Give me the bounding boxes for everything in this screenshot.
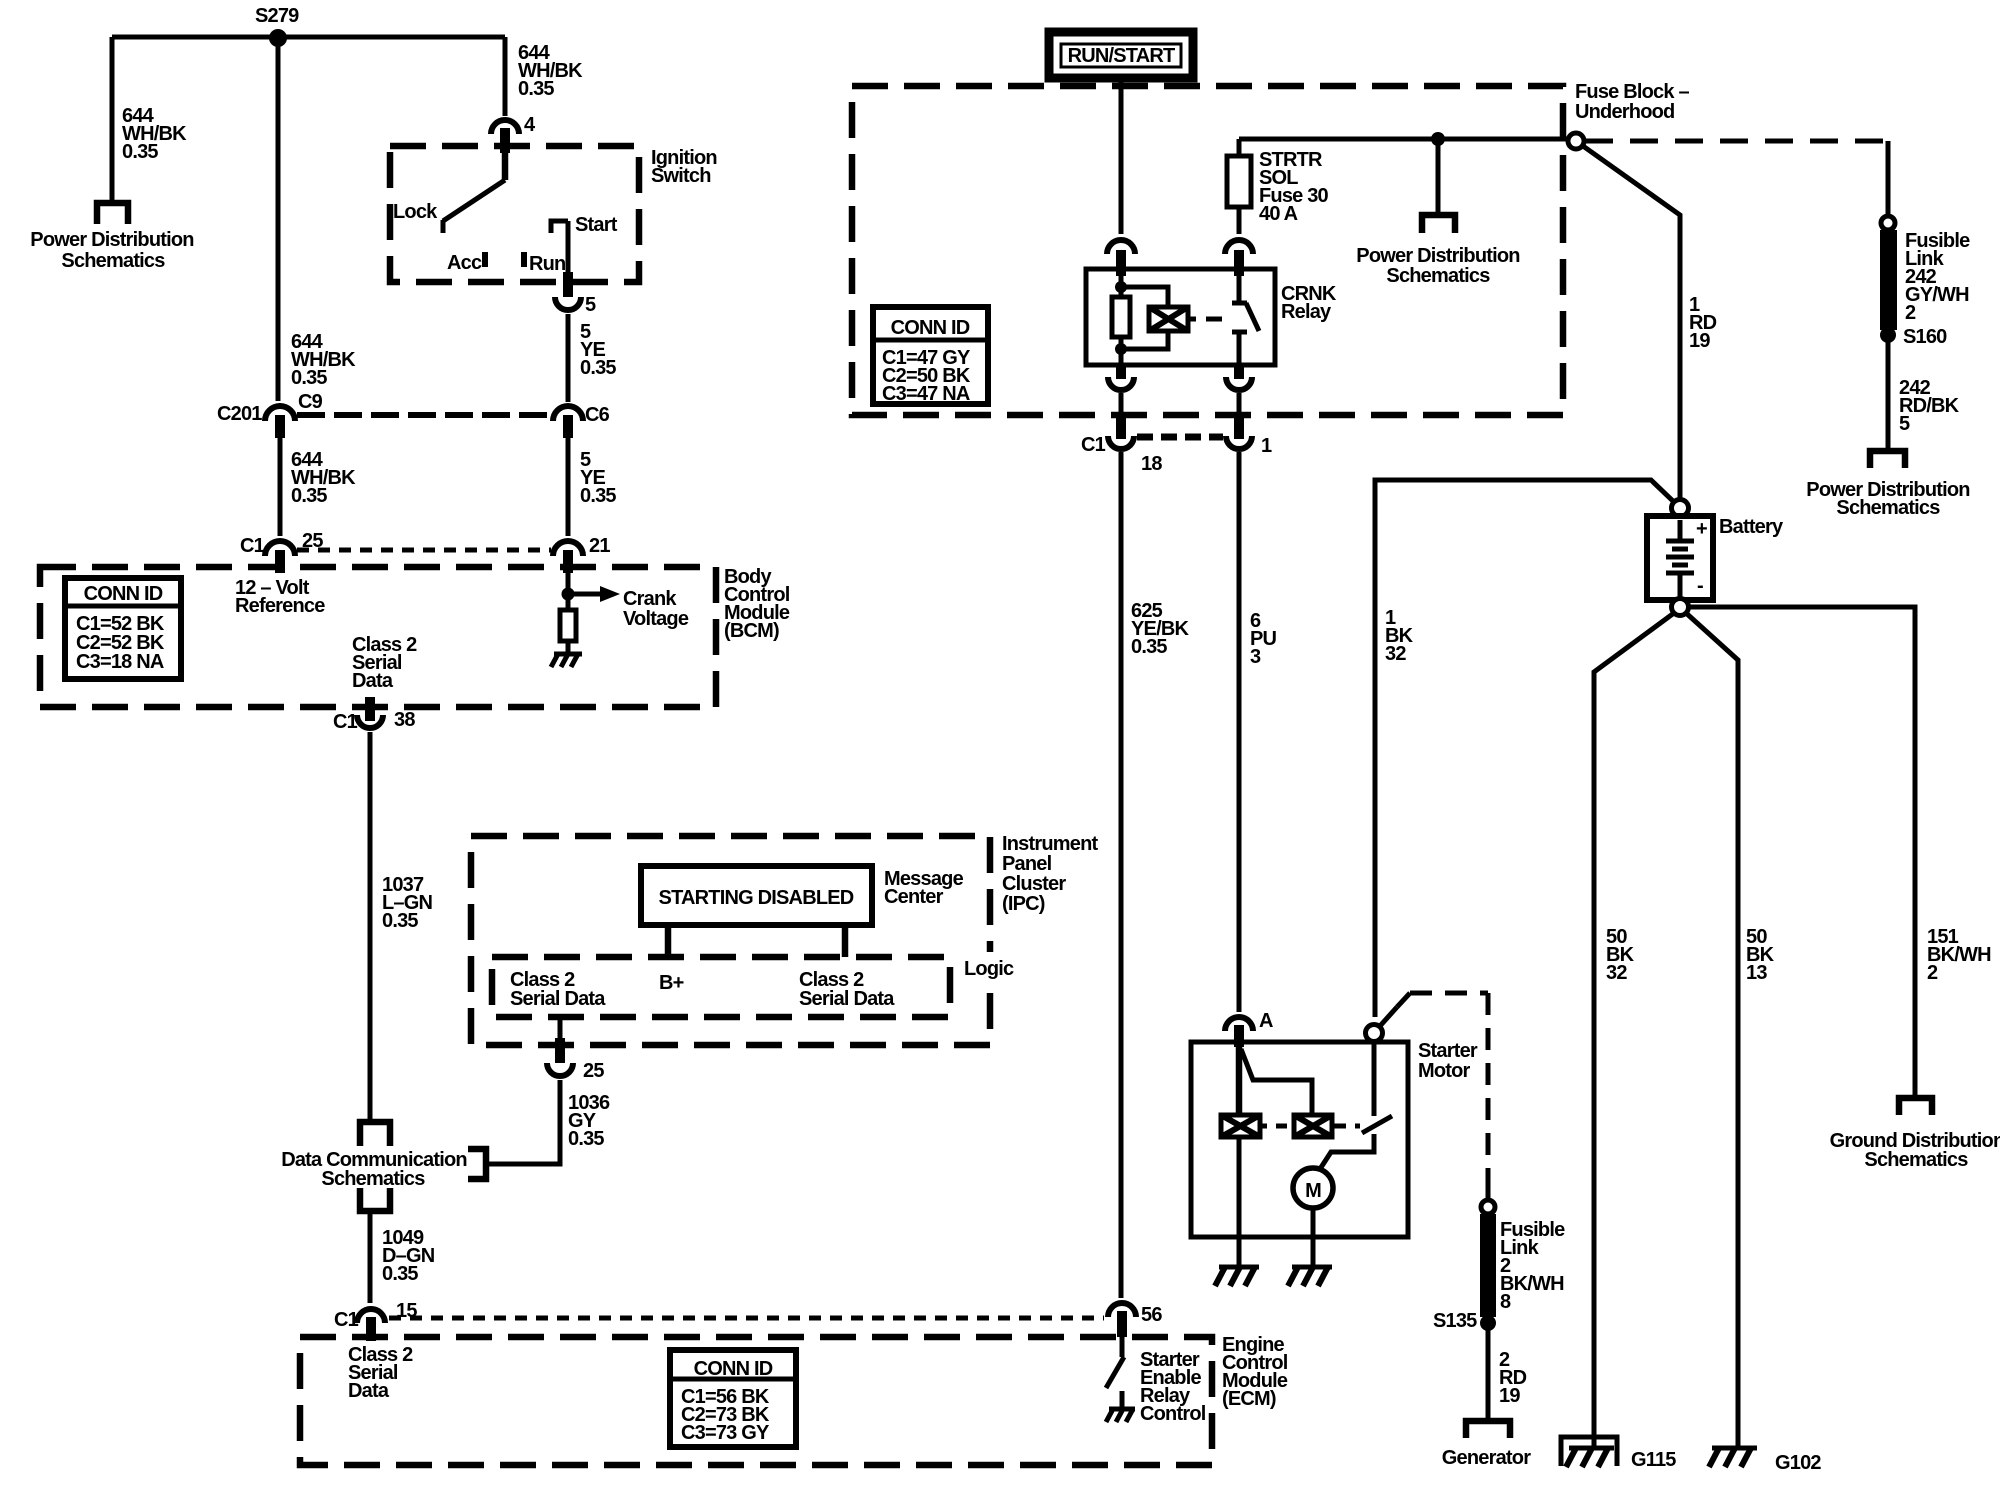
svg-text:B+: B+ bbox=[659, 972, 684, 994]
dashed link coil to contact bbox=[1332, 1124, 1360, 1129]
wire dashed in-line connector C201 bbox=[297, 412, 551, 418]
off-page connector Generator bbox=[1466, 1421, 1510, 1438]
svg-text:RUN/START: RUN/START bbox=[1068, 45, 1175, 67]
table CONN ID (fuse block) bbox=[873, 307, 988, 405]
svg-text:C1: C1 bbox=[1081, 434, 1106, 456]
wire 2 RD 19 down to generator bbox=[1486, 1330, 1491, 1419]
svg-text:5: 5 bbox=[585, 294, 596, 316]
svg-text:(IPC): (IPC) bbox=[1002, 893, 1045, 915]
wire 625 YE/BK from pin 18 down to ECM pin 56 bbox=[1119, 452, 1124, 1298]
svg-text:G115: G115 bbox=[1631, 1449, 1676, 1471]
terminal circle at fuse block corner bbox=[1568, 133, 1584, 149]
svg-text:Voltage: Voltage bbox=[623, 608, 689, 630]
svg-text:0.35: 0.35 bbox=[291, 485, 327, 507]
switch arm (ignition, in Lock position) bbox=[443, 150, 505, 233]
svg-text:32: 32 bbox=[1606, 962, 1627, 984]
svg-text:0.35: 0.35 bbox=[580, 485, 616, 507]
svg-text:Data: Data bbox=[352, 670, 394, 692]
solenoid pull-in coil bbox=[1294, 1115, 1332, 1137]
wire Start position down through box bbox=[566, 221, 571, 272]
dashed link between coils bbox=[1260, 1124, 1287, 1129]
svg-text:18: 18 bbox=[1141, 453, 1162, 475]
off-page connector Data Communication Schematics (bottom bracket) bbox=[360, 1188, 390, 1211]
svg-text:Serial Data: Serial Data bbox=[799, 988, 895, 1010]
wire battery negative to ground distribution bbox=[1688, 607, 1915, 1096]
svg-text:Acc: Acc bbox=[447, 252, 482, 274]
off-page connector Power Distribution Schematics (right) bbox=[1870, 451, 1905, 468]
svg-text:CONN ID: CONN ID bbox=[694, 1358, 773, 1380]
svg-text:Data: Data bbox=[348, 1380, 390, 1402]
off-page connector Power Distribution Schematics (fuse block) bbox=[1422, 215, 1455, 233]
node crank voltage junction dot bbox=[562, 588, 575, 601]
module IPC dashed box bbox=[471, 836, 990, 1045]
wire 5 YE down to C6 bbox=[566, 314, 571, 402]
svg-text:Schematics: Schematics bbox=[61, 250, 165, 272]
svg-text:0.35: 0.35 bbox=[580, 357, 616, 379]
svg-text:C201: C201 bbox=[217, 403, 262, 425]
connector C201 pin C9 bbox=[217, 391, 323, 438]
svg-text:0.35: 0.35 bbox=[122, 141, 158, 163]
svg-text:56: 56 bbox=[1141, 1304, 1162, 1326]
svg-text:2: 2 bbox=[1927, 962, 1938, 984]
svg-text:Center: Center bbox=[884, 886, 944, 908]
ground G102 bbox=[1709, 1448, 1757, 1467]
svg-text:Control: Control bbox=[1140, 1403, 1206, 1425]
svg-text:(ECM): (ECM) bbox=[1222, 1388, 1276, 1410]
wire 1049 D-GN down to C1 pin 15 bbox=[368, 1211, 373, 1303]
svg-text:C6: C6 bbox=[585, 404, 610, 426]
fuse STRTR SOL Fuse 30 40 A bbox=[1227, 139, 1251, 234]
svg-text:S160: S160 bbox=[1903, 326, 1947, 348]
svg-text:M: M bbox=[1305, 1180, 1321, 1202]
connector pin 1 (fuse block bottom) bbox=[1226, 417, 1272, 457]
wire 1036 GY from pin 25 to data comm schematics bbox=[487, 1080, 560, 1164]
logic dashed box (IPC) bbox=[492, 957, 950, 1017]
svg-text:CONN ID: CONN ID bbox=[84, 583, 163, 605]
starter switch blade bbox=[1320, 1041, 1392, 1169]
connector pin A (starter motor) bbox=[1225, 1010, 1273, 1047]
connector C1 pin 15 (ECM) bbox=[334, 1300, 417, 1341]
wire dotted between pin 25 and pin 21 bbox=[297, 548, 551, 553]
solenoid hold-in coil bbox=[1221, 1115, 1260, 1137]
ground G115 bbox=[1566, 1448, 1614, 1467]
svg-text:Panel: Panel bbox=[1002, 853, 1052, 875]
svg-text:21: 21 bbox=[589, 535, 610, 557]
display box STARTING DISABLED bbox=[641, 866, 872, 925]
off-page connector Data Communication Schematics (top bracket) bbox=[360, 1122, 390, 1146]
svg-text:C1: C1 bbox=[333, 711, 358, 733]
wire 644 WH/BK from C9 down to C1 bbox=[278, 438, 283, 536]
svg-text:Logic: Logic bbox=[964, 958, 1014, 980]
svg-text:S135: S135 bbox=[1433, 1310, 1477, 1332]
wire class 2 serial data out of IPC bbox=[558, 1017, 563, 1040]
connector pin 4 (ignition switch) bbox=[491, 114, 536, 153]
starter motor box bbox=[1191, 1042, 1408, 1237]
motor M bbox=[1293, 1168, 1333, 1208]
svg-text:4: 4 bbox=[524, 114, 536, 136]
starter solenoid feed and arm bbox=[1239, 1042, 1312, 1115]
svg-text:40 A: 40 A bbox=[1259, 203, 1298, 225]
resistor (BCM crank voltage) bbox=[560, 594, 576, 654]
wire dotted between pin 18 and pin 1 bbox=[1137, 434, 1223, 441]
svg-text:1: 1 bbox=[1261, 435, 1272, 457]
svg-text:A: A bbox=[1259, 1010, 1273, 1032]
wire message center to logic (right) bbox=[842, 925, 849, 957]
wire dashed starter switch to fusible link 2 bbox=[1380, 993, 1488, 1200]
wire S279 horizontal bus bbox=[112, 35, 505, 40]
svg-text:(BCM): (BCM) bbox=[724, 620, 779, 642]
connector C201 pin C6 bbox=[553, 404, 610, 438]
wire dotted class2 serial data to pin 56 bbox=[389, 1316, 1104, 1321]
svg-text:3: 3 bbox=[1250, 646, 1261, 668]
wire battery negative to G115 bbox=[1594, 613, 1674, 1448]
junction dot at power distribution tap bbox=[1431, 132, 1445, 146]
module Fuse Block - Underhood dashed box bbox=[852, 86, 1563, 415]
svg-text:Schematics: Schematics bbox=[1836, 497, 1940, 519]
svg-text:0.35: 0.35 bbox=[382, 1263, 418, 1285]
svg-text:Crank: Crank bbox=[623, 588, 677, 610]
contact Start bbox=[551, 221, 568, 233]
svg-text:G102: G102 bbox=[1775, 1452, 1821, 1474]
connector relay switch pin (bottom right) bbox=[1226, 365, 1252, 390]
wire tap down to power distribution bracket bbox=[1436, 139, 1441, 213]
table CONN ID (ECM) bbox=[670, 1350, 796, 1447]
contact Run bbox=[521, 252, 527, 267]
module BCM dashed box bbox=[40, 567, 716, 707]
relay switch contacts bbox=[1232, 276, 1259, 365]
wire 5 YE from C6 down to pin 21 bbox=[566, 438, 571, 536]
wire 242 RD/BK down bbox=[1886, 341, 1891, 450]
connector pin 5 (ignition switch) bbox=[555, 272, 596, 316]
svg-text:Generator: Generator bbox=[1442, 1447, 1531, 1469]
svg-text:CONN ID: CONN ID bbox=[891, 317, 970, 339]
contact Acc bbox=[482, 252, 488, 267]
connector pin 25 (IPC bottom) bbox=[547, 1038, 604, 1082]
svg-text:Serial Data: Serial Data bbox=[510, 988, 606, 1010]
wire battery negative to G102 bbox=[1686, 613, 1738, 1448]
off-page connector to Power Distribution Schematics (top left) bbox=[97, 203, 128, 224]
relay coil circuit bbox=[1112, 274, 1188, 365]
switch starter enable relay control (ECM) bbox=[1106, 1337, 1124, 1409]
wire 6 PU from pin 1 down to starter pin A bbox=[1237, 452, 1242, 1012]
wire message center to logic (left) bbox=[665, 925, 672, 957]
svg-text:S279: S279 bbox=[255, 5, 299, 27]
wire RUN/START down to CRNK relay coil pin bbox=[1119, 78, 1124, 234]
wire 1 BK 32 from starter switch up and over to battery + bbox=[1375, 480, 1674, 1017]
ground (starter motor) bbox=[1288, 1267, 1332, 1286]
power feed box RUN/START bbox=[1049, 32, 1193, 78]
table CONN ID (BCM) bbox=[65, 578, 181, 679]
wire 644 down to C201 bbox=[276, 37, 281, 401]
svg-text:Battery: Battery bbox=[1719, 516, 1784, 538]
svg-text:Schematics: Schematics bbox=[321, 1168, 425, 1190]
svg-text:STARTING DISABLED: STARTING DISABLED bbox=[659, 887, 854, 909]
svg-text:0.35: 0.35 bbox=[518, 78, 554, 100]
wire right branch down from S279 bbox=[503, 37, 508, 116]
svg-text:19: 19 bbox=[1499, 1385, 1520, 1407]
ground (ECM internal) bbox=[1106, 1409, 1135, 1422]
starter switch contact circle bbox=[1366, 1025, 1383, 1042]
svg-text:Start: Start bbox=[575, 214, 618, 236]
svg-text:C9: C9 bbox=[298, 391, 323, 413]
off-page connector Data Communication Schematics (right bracket) bbox=[468, 1149, 486, 1179]
svg-text:Schematics: Schematics bbox=[1864, 1149, 1968, 1171]
ignition switch dashed box bbox=[390, 146, 639, 282]
svg-text:Switch: Switch bbox=[651, 165, 711, 187]
svg-text:Relay: Relay bbox=[1281, 301, 1332, 323]
svg-text:Lock: Lock bbox=[393, 201, 438, 223]
svg-text:C3=47 NA: C3=47 NA bbox=[882, 383, 970, 405]
svg-text:13: 13 bbox=[1746, 962, 1767, 984]
svg-text:5: 5 bbox=[1899, 413, 1910, 435]
svg-text:Underhood: Underhood bbox=[1575, 101, 1674, 123]
svg-text:Power Distribution: Power Distribution bbox=[1356, 245, 1519, 267]
connector C1 pin 21 (BCM) bbox=[553, 535, 610, 573]
connector relay coil pin (top left) bbox=[1107, 240, 1135, 276]
svg-text:Motor: Motor bbox=[1418, 1060, 1471, 1082]
svg-text:0.35: 0.35 bbox=[1131, 636, 1167, 658]
wire dashed fuse block extension to fusible link bbox=[1585, 139, 1888, 144]
svg-text:0.35: 0.35 bbox=[291, 367, 327, 389]
svg-text:Instrument: Instrument bbox=[1002, 833, 1098, 855]
svg-text:-: - bbox=[1697, 575, 1703, 597]
svg-text:2: 2 bbox=[1905, 302, 1916, 324]
svg-text:Schematics: Schematics bbox=[1386, 265, 1490, 287]
svg-text:+: + bbox=[1696, 518, 1707, 540]
label Logic bbox=[956, 952, 1024, 982]
wire down to fusible link 242 bbox=[1886, 141, 1891, 217]
connector pin 56 (ECM) bbox=[1108, 1303, 1162, 1337]
ground (BCM internal) bbox=[551, 654, 582, 667]
relay coil to switch dashed actuate line bbox=[1188, 317, 1222, 322]
svg-text:0.35: 0.35 bbox=[382, 910, 418, 932]
wire 1 RD 19 diagonal down to battery bbox=[1583, 146, 1680, 501]
svg-text:19: 19 bbox=[1689, 330, 1710, 352]
battery bbox=[1647, 500, 1713, 616]
wire relay pins down to fuse block edge bbox=[1121, 393, 1239, 418]
connector C1 pin 38 (BCM bottom) bbox=[333, 697, 415, 733]
svg-text:C3=73 GY: C3=73 GY bbox=[681, 1422, 770, 1444]
svg-text:38: 38 bbox=[394, 709, 415, 731]
fusible link 2 BK/WH bbox=[1480, 1200, 1496, 1331]
off-page connector Ground Distribution Schematics bbox=[1899, 1098, 1932, 1115]
connector C1 pin 25 (BCM) bbox=[240, 530, 323, 573]
svg-text:Cluster: Cluster bbox=[1002, 873, 1066, 895]
connector C1 pin 18 (fuse block bottom) bbox=[1081, 417, 1162, 475]
connector relay switch pin (top right) bbox=[1225, 240, 1253, 276]
ground (starter coil) bbox=[1215, 1267, 1259, 1286]
svg-text:Fuse Block –: Fuse Block – bbox=[1575, 81, 1689, 103]
svg-text:Run: Run bbox=[529, 253, 565, 275]
svg-text:C3=18 NA: C3=18 NA bbox=[76, 651, 164, 673]
svg-text:0.35: 0.35 bbox=[568, 1128, 604, 1150]
wire pin21 into BCM bbox=[566, 573, 571, 594]
svg-text:25: 25 bbox=[583, 1060, 604, 1082]
module ECM dashed box bbox=[300, 1337, 1212, 1465]
junction S279 dot bbox=[269, 29, 287, 47]
svg-text:32: 32 bbox=[1385, 643, 1406, 665]
fusible link 242 GY/WH bbox=[1880, 216, 1897, 343]
svg-text:Starter: Starter bbox=[1418, 1040, 1478, 1062]
svg-text:C1: C1 bbox=[240, 535, 265, 557]
wire hold-in coil to ground bbox=[1237, 1137, 1242, 1267]
wire 1037 L-GN down to data communication bbox=[368, 732, 373, 1120]
wire fuse feed horizontal inside fuse block bbox=[1239, 137, 1570, 142]
svg-text:Power Distribution: Power Distribution bbox=[30, 229, 193, 251]
ground G115 bracket bbox=[1561, 1437, 1617, 1466]
svg-text:8: 8 bbox=[1500, 1291, 1511, 1313]
svg-text:Reference: Reference bbox=[235, 595, 325, 617]
relay CRNK box bbox=[1086, 269, 1275, 365]
wire motor to ground bbox=[1311, 1208, 1316, 1267]
wire crank voltage arrow bbox=[568, 586, 620, 602]
wire left branch down from S279 bbox=[110, 37, 115, 201]
connector relay coil pin (bottom left) bbox=[1108, 365, 1134, 390]
